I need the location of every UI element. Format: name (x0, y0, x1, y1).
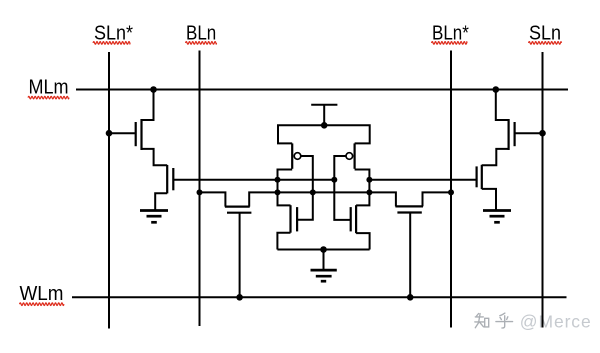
svg-text:BLn: BLn (186, 21, 216, 44)
svg-text:@Merce: @Merce (520, 311, 592, 331)
svg-text:SLn*: SLn* (94, 22, 133, 44)
svg-text:SLn: SLn (529, 23, 561, 45)
svg-text:BLn*: BLn* (432, 21, 469, 44)
svg-text:WLm: WLm (20, 282, 64, 305)
svg-text:MLm: MLm (29, 77, 69, 99)
